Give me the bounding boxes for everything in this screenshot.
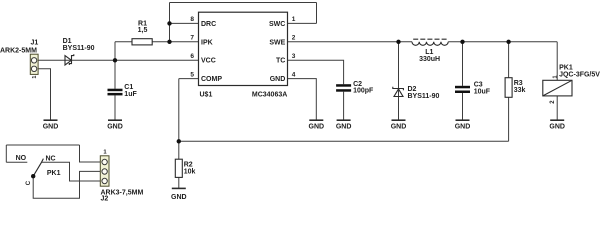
svg-text:3: 3 [292, 53, 296, 60]
node D2 junction dot [396, 40, 400, 44]
svg-text:330uH: 330uH [419, 56, 440, 63]
wire SWE pin2 to L1 [288, 41, 413, 43]
wire C2 bottom to GND [343, 92, 345, 120]
svg-text:GND: GND [171, 194, 187, 201]
wire J1 pin2 to GND [37, 69, 51, 120]
svg-text:NC: NC [46, 155, 56, 162]
svg-text:SWE: SWE [269, 39, 285, 46]
ground symbol C1 [107, 120, 123, 130]
svg-text:1: 1 [32, 76, 38, 79]
node common junction dot [31, 174, 35, 178]
svg-text:1uF: 1uF [124, 91, 137, 98]
svg-text:33k: 33k [514, 87, 526, 94]
svg-text:GND: GND [43, 124, 59, 131]
svg-text:5: 5 [190, 71, 194, 78]
svg-text:10uF: 10uF [474, 89, 491, 96]
connector J2 [100, 156, 109, 186]
node feedback junction dot [177, 139, 181, 143]
wire NO contact terminal [6, 161, 27, 163]
wire top rail right drop to SWC [316, 3, 318, 24]
svg-text:COMP: COMP [201, 76, 222, 83]
svg-text:GND: GND [107, 124, 123, 131]
wire D2 branch [398, 42, 400, 120]
svg-text:6: 6 [190, 53, 194, 60]
svg-text:8: 8 [190, 16, 194, 23]
capacitor C3 [455, 86, 470, 93]
svg-text:PK1: PK1 [47, 170, 61, 177]
svg-text:BYS11-90: BYS11-90 [63, 45, 95, 52]
ground symbol D2 [391, 120, 407, 130]
svg-text:2: 2 [292, 35, 296, 42]
wire R3 branch [508, 42, 510, 142]
wire DRC pin8 [170, 22, 199, 24]
svg-text:GND: GND [336, 124, 352, 131]
svg-text:TC: TC [276, 58, 285, 65]
connector J1 [30, 54, 38, 74]
svg-text:1: 1 [552, 76, 558, 79]
ground symbol R2 [171, 188, 187, 201]
svg-text:GND: GND [309, 124, 325, 131]
svg-text:D1: D1 [63, 38, 72, 45]
svg-text:GND: GND [549, 124, 565, 131]
wire L1 to relay bend [448, 41, 557, 43]
diode D1 BYS11-90 [65, 54, 74, 65]
svg-text:DRC: DRC [201, 21, 216, 28]
svg-text:7: 7 [190, 35, 194, 42]
wire relay coil drop [556, 42, 558, 81]
ground symbol C3 [455, 120, 471, 130]
svg-text:PK1: PK1 [559, 64, 573, 71]
wire C3 top [462, 42, 464, 86]
svg-text:C3: C3 [474, 82, 483, 89]
svg-text:MC34063A: MC34063A [252, 91, 287, 98]
ground symbol C2 [336, 120, 352, 130]
node C3 junction dot [460, 40, 464, 44]
node pin7 junction dot [167, 40, 171, 44]
wire common C to J2 pin2 [33, 171, 102, 198]
svg-text:100pF: 100pF [353, 88, 374, 95]
wire TC pin3 to C2 [288, 60, 344, 84]
wire relay coil to GND [556, 96, 558, 120]
wire C1 top [114, 60, 116, 89]
svg-text:NO: NO [16, 155, 27, 162]
svg-text:U$1: U$1 [200, 91, 213, 98]
node VCC junction dot [113, 58, 117, 62]
svg-text:JQC-3FG/5V: JQC-3FG/5V [559, 71, 600, 78]
wire SWC pin1 stub [288, 22, 317, 24]
op-amp U$1 MC34063A IC box [199, 12, 288, 85]
svg-text:J1: J1 [31, 40, 39, 47]
svg-text:J2: J2 [101, 196, 109, 203]
wire NC to J2 pin3 [42, 162, 103, 181]
wire feedback node to R3 [179, 140, 509, 142]
wire COMP pin5 [179, 78, 199, 80]
svg-text:1,5: 1,5 [138, 27, 148, 34]
node pin8 junction dot [167, 21, 171, 25]
relay coil PK1 [543, 80, 572, 96]
wire NO to J2 pin1 [80, 145, 103, 162]
wire C1 bottom to GND [114, 95, 116, 120]
wire top rail left drop to pin8 node [169, 3, 171, 24]
wire C3 bottom to GND [462, 93, 464, 120]
svg-text:C1: C1 [124, 84, 133, 91]
svg-text:R3: R3 [514, 80, 523, 87]
svg-text:GND: GND [391, 124, 407, 131]
svg-text:VCC: VCC [201, 58, 216, 65]
svg-text:C: C [26, 180, 32, 185]
svg-text:4: 4 [292, 71, 296, 78]
wire IPK pin7 through R1 [115, 41, 199, 43]
capacitor C2 [336, 84, 351, 92]
wire NO left drop [5, 145, 7, 162]
wire GND pin4 [288, 79, 317, 120]
svg-text:ARK2-5MM: ARK2-5MM [0, 48, 37, 55]
svg-text:10k: 10k [184, 169, 196, 176]
ground symbol relay [549, 120, 565, 130]
wire VCC line J1 to pin6 through D1 [37, 59, 199, 61]
node R3 junction dot [506, 40, 510, 44]
relay contact PK1 blade [33, 159, 43, 177]
wire top rail SWC to DRC [170, 2, 317, 4]
wire R1 left drop to VCC node [114, 42, 116, 61]
ground symbol pin4 [309, 120, 325, 130]
wire tie pin8 to pin7 [169, 23, 171, 41]
ground symbol J1 [43, 120, 59, 130]
svg-text:GND: GND [455, 124, 471, 131]
svg-text:1: 1 [292, 16, 296, 23]
resistor R2 [175, 159, 182, 177]
diode D2 BYS11-90 [393, 87, 404, 97]
svg-text:R2: R2 [184, 161, 193, 168]
svg-text:GND: GND [270, 76, 286, 83]
svg-text:IPK: IPK [201, 39, 213, 46]
svg-text:BYS11-90: BYS11-90 [408, 93, 440, 100]
resistor R1 [132, 39, 152, 45]
capacitor C1 [108, 89, 123, 96]
resistor R3 [505, 78, 512, 98]
svg-text:SWC: SWC [269, 21, 285, 28]
inductor L1 [412, 39, 448, 45]
relay contact PK1 wiring: top rail NO [6, 144, 79, 146]
wire COMP drop through R2 to GND [178, 79, 180, 189]
